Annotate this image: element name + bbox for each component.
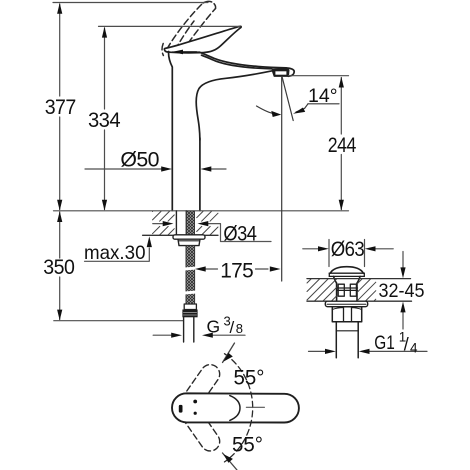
neck taper [334,276,337,283]
mounting nut [178,239,200,245]
lever marks [179,405,183,413]
raised lever tip arc [203,1,216,8]
svg-text:244: 244 [328,134,357,157]
swing arc [225,354,253,462]
Ø34 arrows [153,224,271,242]
svg-text:334: 334 [88,109,121,132]
arc arrow [257,106,276,114]
svg-text:14°: 14° [308,85,338,107]
raised lever pivot arc [162,44,163,56]
dim 334 line [104,28,106,109]
14° leader [296,104,308,112]
thread relief + pipe [336,322,358,358]
spout underside [202,55,272,69]
stabilizer plate [173,235,205,239]
arrows 334 [102,27,107,38]
lever tip arc (plan) [230,396,240,421]
svg-text:Ø34: Ø34 [223,222,257,245]
overflow windows [337,284,358,296]
washer [325,301,367,307]
dim 350 line [59,212,61,258]
white fill to hide dashes under solid body [165,26,294,210]
head top line [172,51,199,53]
Ø63 dim [303,240,393,267]
14 deg stream line [282,77,293,121]
svg-text:4: 4 [410,340,418,355]
dashed swung levers [170,361,223,455]
raised lever edge left [167,3,203,49]
55° leaders [223,343,238,470]
body through deck [337,283,357,301]
hex nut [332,307,361,322]
braid through deck [186,211,194,235]
spout nose [286,68,294,76]
deck bottom line right [307,300,412,302]
svg-text:350: 350 [43,256,74,279]
svg-text:Ø50: Ø50 [120,149,158,172]
deck hatch right [307,279,376,301]
deck bottom line [143,234,218,236]
svg-text:55°: 55° [234,367,265,390]
svg-text:175: 175 [220,260,253,283]
threaded stud tube [176,211,186,235]
svg-text:8: 8 [236,321,243,336]
svg-text:32-45: 32-45 [379,281,425,302]
neck curve into body right edge [196,71,273,140]
flex hose braid [186,246,195,304]
hose end nut (dark) [182,310,197,318]
lever (solid) [164,26,241,53]
solid plan outline (white fill hides dashes inside) [172,393,299,422]
deck top long line [54,210,349,212]
deck top line right [307,278,411,280]
body left edge [169,52,173,211]
svg-text:377: 377 [45,96,76,119]
dim 377 line [59,4,61,96]
svg-text:G: G [207,317,221,337]
arrows 350 [57,211,62,222]
body right edge [199,138,201,211]
svg-text:max.30: max.30 [84,242,146,264]
hose end collar [184,304,196,310]
svg-text:G1: G1 [374,333,395,354]
ext line hose end [54,320,183,322]
dome cap [330,267,363,274]
ext line lever rest height [99,25,241,27]
raised lever middle crease [175,21,194,50]
G1 1/4 label [309,350,428,352]
raised lever edge right [182,9,216,52]
hose break marks [185,267,196,269]
ext line top (raised lever height) [53,2,208,4]
vertical stream ref line [281,77,283,282]
svg-text:55°: 55° [232,434,263,457]
arrows 377 [57,3,62,14]
svg-text:Ø63: Ø63 [331,238,365,261]
spout top edge [199,52,286,68]
svg-text:/: / [404,335,409,355]
axis tick [246,406,264,408]
lever direction arrow at pivot [172,50,183,55]
aerator (dark) [272,69,289,77]
G3/8 tube [184,317,194,342]
14° underline [308,103,339,105]
svg-text:/: / [230,318,235,337]
